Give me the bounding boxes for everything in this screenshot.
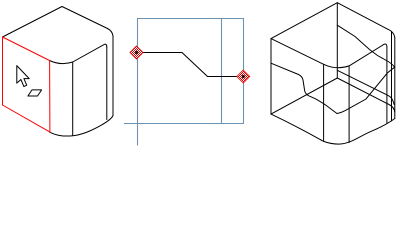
selected face: top edge (red): [3, 37, 50, 61]
bottom-right silhouette curve: [321, 119, 395, 145]
east back fillet tangent vertical (hidden): [391, 31, 393, 121]
bottom edge of left face: [271, 114, 321, 140]
bottom-right silhouette curve: [50, 116, 113, 137]
sketch: inner vertical line (fillet tangent projection): [221, 18, 223, 124]
wire: top-left (NW) edge of top face: [3, 7, 63, 38]
back vertical edge (hidden): [336, 3, 338, 78]
front fillet right tangent vertical: [348, 66, 350, 143]
front fillet top sag arc: [50, 61, 73, 64]
sketch: right vertical line: [243, 18, 245, 124]
face-select parallelogram glyph: [28, 90, 42, 96]
east silhouette vertical: [394, 38, 396, 119]
hidden bottom edge to east: [337, 78, 395, 112]
projected curve jog on back-right face (hidden): [337, 25, 394, 67]
hidden curve across right face: [337, 70, 394, 104]
cursor arrow pointer: [17, 66, 42, 96]
east silhouette vertical edge: [112, 36, 114, 116]
front fillet right tangent vertical: [72, 62, 74, 135]
east corner fillet arc of top face: [388, 29, 395, 37]
wire: top-right (NE) edge of top face: [62, 7, 108, 29]
endpoint diamond (right): [237, 70, 250, 83]
selected face: front tangent vertical (red): [49, 61, 51, 133]
selected face: left vertical edge (red): [2, 37, 4, 105]
endpoint diamond (left): [130, 46, 143, 59]
top edge of right face rising to east corner: [73, 44, 107, 62]
west vertical edge: [270, 39, 272, 115]
projected curve diagonal on front-right face: [337, 67, 395, 113]
front fillet left tangent vertical: [323, 64, 325, 141]
top edge of left face (W to S): [271, 39, 324, 65]
east corner fillet arc of top face: [108, 29, 114, 37]
front fillet top sag arc: [324, 64, 350, 67]
hidden bottom edge to west: [271, 78, 337, 114]
top edge of right face (S to E): [349, 44, 387, 66]
projected curve on front-left face: [271, 63, 337, 113]
wire: NE top edge: [337, 3, 387, 30]
wire: NW top edge: [271, 3, 337, 39]
sketch: left vertical line (overshoots bottom): [137, 18, 139, 146]
selected face: bottom edge (red): [3, 105, 50, 132]
east inner fillet tangent vertical: [386, 47, 388, 124]
sketch path polyline: [137, 53, 244, 77]
east inner fillet tangent vertical: [106, 47, 108, 120]
sketch: bottom horizontal line (overshoots left): [124, 123, 244, 125]
sketch: top edge line: [137, 18, 244, 20]
